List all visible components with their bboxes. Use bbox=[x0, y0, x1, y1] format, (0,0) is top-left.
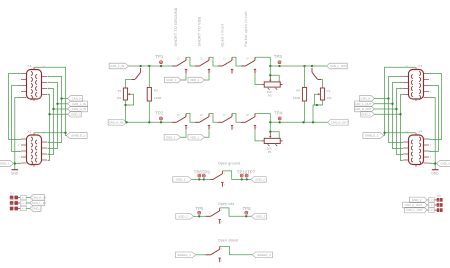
svg-text:CAN_H_OUT: CAN_H_OUT bbox=[331, 120, 349, 124]
switch S11 (open shield) bbox=[206, 246, 223, 262]
wire to ground right bbox=[434, 164, 436, 170]
wire open-ground right bbox=[222, 171, 250, 180]
junction GND right bbox=[434, 162, 436, 164]
svg-text:P3: P3 bbox=[268, 94, 272, 98]
potentiometer P3 bbox=[262, 76, 283, 97]
svg-text:TP3: TP3 bbox=[274, 54, 283, 59]
svg-text:GND_1: GND_1 bbox=[0, 162, 10, 166]
svg-text:VDD_1: VDD_1 bbox=[190, 78, 200, 82]
svg-text:G1: G1 bbox=[39, 97, 43, 99]
svg-text:P: P bbox=[256, 71, 258, 73]
net flag CAN_L_IN (left stack) bbox=[68, 101, 88, 107]
svg-text:GND_1: GND_1 bbox=[166, 78, 176, 82]
svg-text:P: P bbox=[210, 127, 212, 129]
jumper JP4 bbox=[428, 196, 442, 202]
wire X3 pin6 - X4 pin6 bbox=[389, 77, 404, 143]
svg-text:S: S bbox=[233, 116, 235, 118]
wire X1 pin8 - X2 pin8 bbox=[48, 89, 54, 155]
wire R3 top bbox=[148, 66, 150, 88]
svg-text:GND_1: GND_1 bbox=[166, 135, 176, 139]
wire X4 shell - shield bbox=[385, 132, 416, 134]
wire to flag CAN_L_OUT bbox=[375, 103, 393, 105]
svg-text:CAN_L_OUT: CAN_L_OUT bbox=[406, 208, 423, 212]
wire P2 bottom to bus2 bbox=[313, 100, 323, 122]
wire R4 bottom bbox=[304, 101, 306, 122]
svg-text:G2: G2 bbox=[39, 163, 43, 165]
wire jumper JP5 to flag bbox=[427, 204, 428, 206]
wire to flag CAN_H_OUT bbox=[375, 108, 397, 110]
wire open-vdd right bbox=[220, 208, 252, 216]
svg-text:S: S bbox=[233, 60, 235, 62]
switch S9 (open ground) bbox=[210, 171, 226, 187]
svg-text:S8: S8 bbox=[246, 115, 250, 117]
wire bus2 sw1-sw2 bbox=[186, 114, 195, 123]
wire to flag GND_2 bbox=[375, 113, 401, 115]
svg-text:P: P bbox=[221, 260, 223, 262]
resistor R4 120R bbox=[293, 88, 307, 102]
wire jumper JP3 to flag bbox=[26, 208, 29, 210]
net flag CAN_H_OUT bbox=[403, 202, 428, 208]
svg-text:Open vdd: Open vdd bbox=[218, 202, 234, 206]
wire open-shield left bbox=[196, 254, 206, 256]
svg-text:X4: X4 bbox=[418, 129, 422, 133]
switch S6 (bus2) bbox=[195, 114, 212, 130]
svg-text:120R: 120R bbox=[154, 96, 162, 100]
svg-text:VDD_1: VDD_1 bbox=[190, 135, 200, 139]
svg-text:10k: 10k bbox=[327, 96, 332, 100]
svg-text:S: S bbox=[256, 116, 258, 118]
wire to flag CAN_H right bbox=[375, 98, 389, 100]
wire jumper JP2 to flag bbox=[26, 202, 29, 204]
svg-text:S5: S5 bbox=[177, 115, 181, 117]
wire X1 pin3 - X2 pin3 bbox=[12, 86, 21, 152]
svg-text:GND_1: GND_1 bbox=[32, 207, 42, 211]
switch S10 (open vdd) bbox=[206, 208, 223, 224]
net flag GND_1 (open ground left) bbox=[173, 177, 192, 183]
net flag GND_1 (sw1 throw) bbox=[165, 77, 181, 83]
wire bus2 sw3-sw4 bbox=[232, 114, 241, 123]
connector X2 (DB9) bbox=[18, 129, 50, 166]
junctions X1 column nets bbox=[48, 97, 62, 115]
test point TP4 bbox=[274, 111, 283, 120]
net flag GND_1 (left) bbox=[0, 161, 13, 167]
wire X3 pin9 - X4 pin9 bbox=[401, 95, 404, 161]
net flag GND_1 (sw5 throw) bbox=[164, 134, 180, 140]
wire jumper JP4 to flag bbox=[427, 199, 428, 201]
svg-text:CAN_L_IN: CAN_L_IN bbox=[110, 64, 124, 68]
svg-text:CAN_H_OUT: CAN_H_OUT bbox=[354, 107, 372, 111]
svg-text:GND_1: GND_1 bbox=[71, 112, 81, 116]
svg-text:Open ground: Open ground bbox=[218, 162, 240, 166]
svg-text:7: 7 bbox=[48, 82, 50, 85]
switch S14 (bus1 to P2) bbox=[308, 68, 322, 80]
svg-text:GND_2: GND_2 bbox=[255, 177, 265, 181]
net flag CAN_H_IN (bus2 left) bbox=[108, 120, 126, 126]
test point TP5 bbox=[195, 206, 204, 214]
switch S3 (bus1) bbox=[218, 57, 235, 73]
svg-text:P: P bbox=[233, 127, 235, 129]
net flag CAN_L_OUT (bus1 right) bbox=[327, 63, 348, 69]
switch S13 (bus1 to P1) bbox=[132, 68, 144, 80]
svg-text:JP3 1: JP3 1 bbox=[21, 208, 27, 210]
wire P1 wiper loop bbox=[126, 94, 134, 105]
wire X3 pin7 - X4 pin7 bbox=[393, 83, 404, 149]
net flag CAN_H_IN (left stack) bbox=[68, 106, 88, 112]
svg-text:5: 5 bbox=[430, 97, 432, 100]
jumper JP5 bbox=[428, 201, 442, 207]
junction TP8 bbox=[245, 215, 247, 217]
connector X1 (DB9) bbox=[18, 64, 50, 101]
wire R4 top bbox=[304, 66, 306, 88]
svg-text:SHIELD_1: SHIELD_1 bbox=[72, 134, 86, 138]
svg-text:S: S bbox=[187, 60, 189, 62]
net flag GND_2 (right) bbox=[437, 161, 450, 167]
svg-text:P: P bbox=[221, 222, 223, 224]
wire P1 bottom to bus2 bbox=[125, 100, 127, 122]
wire jumper JP6 to flag bbox=[427, 209, 428, 211]
svg-text:S2: S2 bbox=[200, 59, 204, 61]
svg-text:TP10TP7: TP10TP7 bbox=[237, 169, 256, 174]
junction shield left bbox=[64, 132, 66, 134]
svg-text:8: 8 bbox=[400, 88, 402, 91]
switch S4 (bus1) bbox=[241, 57, 258, 73]
svg-text:5: 5 bbox=[18, 97, 20, 100]
wire X3 pin3 - X4 pin3 bbox=[429, 86, 438, 152]
svg-text:R3: R3 bbox=[154, 89, 158, 93]
svg-text:1: 1 bbox=[430, 73, 432, 76]
jumper JP6 bbox=[428, 206, 442, 212]
svg-text:CAN_H_IN: CAN_H_IN bbox=[32, 196, 46, 200]
potentiometer P1 bbox=[117, 88, 132, 100]
wire bus2 sw4 to right flag bbox=[255, 114, 328, 123]
wire open-shield right bbox=[220, 246, 253, 254]
svg-text:P: P bbox=[210, 71, 212, 73]
net flag GND_1 bbox=[30, 206, 42, 212]
svg-text:CAN_H_IN: CAN_H_IN bbox=[109, 120, 123, 124]
net flag GND_1 (stack) bbox=[68, 111, 82, 117]
switch S2 (bus1) bbox=[195, 57, 212, 73]
test point TP6 bbox=[198, 174, 201, 177]
svg-text:X3: X3 bbox=[418, 64, 422, 68]
svg-text:P4: P4 bbox=[268, 150, 272, 154]
wire sw2 throw to VDD_1 bbox=[204, 74, 209, 80]
wire S13 to P1 top bbox=[126, 80, 132, 89]
switch S1 (bus1) bbox=[172, 57, 189, 73]
svg-text:SHIELD_2: SHIELD_2 bbox=[257, 253, 271, 257]
net flag CAN_H (right) bbox=[360, 96, 375, 102]
net flag CAN_L_OUT (right stack) bbox=[354, 101, 374, 107]
svg-text:S: S bbox=[224, 173, 226, 175]
test point TP3 bbox=[274, 54, 283, 63]
junction GND left bbox=[14, 162, 16, 164]
junctions bus2 left bbox=[125, 121, 162, 123]
wire sw6 throw to VDD_1 bbox=[204, 130, 209, 137]
svg-text:4: 4 bbox=[18, 156, 20, 159]
junctions TP10 TP7 bbox=[241, 178, 248, 180]
svg-text:S: S bbox=[187, 116, 189, 118]
svg-text:GND_2: GND_2 bbox=[441, 162, 450, 166]
svg-text:P1: P1 bbox=[118, 89, 122, 93]
junctions X3 column nets bbox=[387, 97, 401, 115]
svg-text:1: 1 bbox=[18, 73, 20, 76]
junctions bus1 left bbox=[139, 65, 162, 67]
ground bbox=[11, 170, 19, 176]
svg-text:VDD_2: VDD_2 bbox=[256, 214, 266, 218]
svg-text:CAN_H_IN: CAN_H_IN bbox=[72, 107, 86, 111]
svg-text:P2: P2 bbox=[327, 89, 331, 93]
wire sw1 throw to GND_1 bbox=[181, 74, 186, 80]
wire X1 pin5 - X2 pin5 - GND bbox=[15, 98, 21, 164]
net flag SHIELD_1 (left) bbox=[66, 133, 87, 139]
wire P2 wiper loop bbox=[314, 94, 322, 105]
wire sw8 throw to P4 left bbox=[255, 130, 262, 141]
wire to flag CAN_L_IN bbox=[58, 103, 68, 105]
wire X1 pin1 - X2 pin1 bbox=[9, 74, 22, 140]
svg-text:10k: 10k bbox=[117, 96, 122, 100]
svg-text:CAN_L_OUT: CAN_L_OUT bbox=[354, 102, 371, 106]
svg-text:3: 3 bbox=[18, 85, 20, 88]
net flag SHIELD_1 (open shield left) bbox=[176, 252, 196, 258]
svg-text:JP2 1: JP2 1 bbox=[21, 203, 27, 205]
resistor R3 120R bbox=[147, 88, 162, 102]
svg-text:P: P bbox=[233, 71, 235, 73]
svg-text:7: 7 bbox=[400, 82, 402, 85]
jumper JP1 bbox=[10, 194, 27, 200]
svg-text:1 JP6: 1 JP6 bbox=[429, 210, 435, 212]
wire open-ground left bbox=[192, 178, 211, 180]
svg-text:TP2: TP2 bbox=[155, 111, 164, 116]
svg-text:SHORT TO VDD: SHORT TO VDD bbox=[198, 16, 202, 46]
wire X1 pin7 - X2 pin7 bbox=[48, 83, 58, 149]
svg-text:S7: S7 bbox=[223, 115, 227, 117]
svg-text:1 JP5: 1 JP5 bbox=[429, 205, 435, 207]
wire to flag GND_1 bbox=[50, 113, 68, 115]
svg-text:JP4: JP4 bbox=[437, 196, 442, 198]
wire S14 to P2 top bbox=[321, 80, 323, 89]
svg-text:JP1 1: JP1 1 bbox=[21, 197, 27, 199]
net flag CAN_L_IN bbox=[30, 200, 46, 206]
svg-text:GND_2: GND_2 bbox=[412, 198, 422, 202]
net flag SHIELD_2 (right) bbox=[363, 133, 384, 139]
svg-text:JP2: JP2 bbox=[10, 199, 15, 201]
test point TP9 bbox=[202, 174, 205, 177]
svg-text:P: P bbox=[224, 185, 226, 187]
svg-text:GND_2: GND_2 bbox=[361, 112, 371, 116]
svg-text:S: S bbox=[142, 71, 144, 73]
svg-text:GND_1: GND_1 bbox=[176, 177, 186, 181]
wire X3 pin5 - X4 pin5 - GND bbox=[429, 98, 435, 164]
svg-text:VDD_1: VDD_1 bbox=[178, 214, 188, 218]
net flag VDD_1 (open vdd left) bbox=[176, 214, 194, 220]
wire to flag CAN_H_IN bbox=[54, 108, 68, 110]
net flag VDD_2 (open vdd right) bbox=[251, 214, 266, 220]
switch S7 (bus2) bbox=[218, 114, 235, 130]
wire bus1 sw3-sw4 bbox=[232, 57, 241, 66]
wire open-vdd left bbox=[194, 215, 206, 217]
net flag GND_2 bbox=[409, 197, 427, 203]
net flag VDD_1 (sw2 throw) bbox=[188, 77, 204, 83]
svg-text:P: P bbox=[187, 71, 189, 73]
test point TP8 bbox=[243, 206, 252, 214]
connector X4 (DB9) bbox=[400, 129, 432, 166]
net flag VDD_1 (sw6 throw) bbox=[188, 134, 204, 140]
svg-text:S6: S6 bbox=[200, 115, 204, 117]
wire to flag CAN_L bbox=[62, 98, 68, 100]
wire bus1 sw1-sw2 bbox=[186, 57, 195, 66]
junction P4 wiper bbox=[269, 131, 271, 133]
test point TP10 bbox=[240, 174, 243, 177]
wire sw4 throw to P3 left bbox=[255, 74, 262, 85]
wire bus1 to P3 right bbox=[270, 66, 279, 82]
net flag CAN_H bbox=[68, 96, 83, 102]
net flag GND_2 (open ground right) bbox=[251, 177, 266, 183]
wire jumper JP1 to flag bbox=[26, 197, 29, 199]
svg-text:S: S bbox=[308, 71, 310, 73]
svg-text:JP1: JP1 bbox=[10, 194, 15, 196]
svg-text:2: 2 bbox=[430, 144, 432, 147]
svg-text:S: S bbox=[256, 60, 258, 62]
svg-text:6: 6 bbox=[400, 76, 402, 79]
junctions TP6 TP9 bbox=[198, 178, 205, 180]
svg-text:R4: R4 bbox=[296, 89, 300, 93]
junction TP5 bbox=[198, 215, 200, 217]
svg-text:S: S bbox=[221, 249, 223, 251]
svg-text:TP8: TP8 bbox=[243, 206, 252, 211]
svg-text:G1: G1 bbox=[42, 65, 46, 69]
svg-text:P: P bbox=[187, 127, 189, 129]
connector X3 (DB9) bbox=[400, 64, 432, 101]
net flag CAN_H_OUT (bus2 right) bbox=[328, 120, 349, 126]
svg-text:GND: GND bbox=[11, 171, 19, 175]
svg-text:S1: S1 bbox=[177, 59, 181, 61]
jumper JP2 bbox=[10, 199, 27, 205]
wire bus1 sw2-sw3 bbox=[209, 57, 218, 66]
wire bus2 sw2-sw3 bbox=[209, 114, 218, 123]
wire X1 pin9 - X2 pin9 bbox=[48, 95, 50, 161]
svg-text:SHIELD_1: SHIELD_1 bbox=[177, 253, 191, 257]
wire X3 shell - shield bbox=[384, 67, 416, 135]
svg-text:Open shield: Open shield bbox=[218, 238, 238, 242]
wire bus2 left segment bbox=[127, 121, 173, 123]
test point TP1 bbox=[155, 54, 164, 63]
wire X1 shell - shield bbox=[34, 67, 66, 135]
svg-text:120R: 120R bbox=[293, 96, 301, 100]
svg-text:S3: S3 bbox=[223, 59, 227, 61]
svg-text:2: 2 bbox=[430, 79, 432, 82]
svg-text:TP1: TP1 bbox=[155, 54, 164, 59]
svg-text:X1: X1 bbox=[28, 64, 32, 68]
svg-text:CAN_H: CAN_H bbox=[72, 97, 82, 101]
svg-text:CAN_H_OUT: CAN_H_OUT bbox=[405, 203, 423, 207]
net flag CAN_H_IN bbox=[30, 195, 46, 201]
svg-text:2: 2 bbox=[18, 144, 20, 147]
svg-text:4: 4 bbox=[430, 156, 432, 159]
junctions bus1 right bbox=[269, 65, 313, 67]
junction shield right bbox=[383, 132, 385, 134]
svg-text:S: S bbox=[210, 60, 212, 62]
wire sw5 throw to GND_1 bbox=[181, 130, 187, 137]
svg-text:TP5: TP5 bbox=[195, 206, 204, 211]
wire X3 pin8 - X4 pin8 bbox=[397, 89, 404, 155]
svg-text:S4: S4 bbox=[246, 59, 250, 61]
jumper JP3 bbox=[10, 205, 27, 211]
svg-text:4: 4 bbox=[430, 91, 432, 94]
svg-text:P: P bbox=[256, 127, 258, 129]
test point TP2 bbox=[155, 111, 164, 120]
junctions bus2 right bbox=[269, 121, 314, 123]
svg-text:6: 6 bbox=[48, 76, 50, 79]
svg-text:Open circuit: Open circuit bbox=[221, 24, 225, 47]
svg-text:Partial open circuit: Partial open circuit bbox=[244, 11, 248, 46]
potentiometer P4 bbox=[262, 133, 283, 154]
net flag CAN_H_OUT (right stack) bbox=[354, 106, 374, 112]
svg-text:TP6TP9: TP6TP9 bbox=[194, 169, 211, 174]
svg-text:G3: G3 bbox=[405, 65, 409, 69]
wire R3 bottom bbox=[148, 101, 150, 122]
svg-text:G4: G4 bbox=[405, 130, 409, 134]
net flag SHIELD_2 (open shield right) bbox=[252, 252, 272, 258]
net flag CAN_L_OUT bbox=[405, 207, 428, 213]
svg-text:CAN_L_IN: CAN_L_IN bbox=[32, 201, 46, 205]
svg-text:SHIELD_2: SHIELD_2 bbox=[365, 134, 379, 138]
switch S5 (bus2) bbox=[172, 114, 189, 130]
wire bus2 to P4 right bbox=[270, 122, 279, 138]
wire to ground bbox=[14, 164, 16, 170]
svg-text:4: 4 bbox=[18, 91, 20, 94]
net flag CAN_L_IN (bus1 left) bbox=[109, 63, 128, 69]
svg-text:X2: X2 bbox=[28, 129, 32, 133]
switch S8 (bus2) bbox=[241, 114, 258, 130]
junction P1 wiper bbox=[124, 104, 126, 106]
ground right bbox=[431, 170, 439, 176]
svg-text:GND: GND bbox=[431, 171, 439, 175]
svg-text:S: S bbox=[221, 210, 223, 212]
svg-text:3: 3 bbox=[430, 85, 432, 88]
junction P3 wiper bbox=[269, 74, 271, 76]
wire X2 shell - shield bbox=[34, 132, 66, 134]
wire X3 pin1 - X4 pin1 bbox=[429, 74, 442, 140]
svg-text:TP4: TP4 bbox=[274, 111, 283, 116]
wire bus1 sw4 to right flag bbox=[255, 57, 327, 66]
svg-text:2: 2 bbox=[18, 79, 20, 82]
svg-text:JP3: JP3 bbox=[10, 205, 15, 207]
svg-text:1 JP4: 1 JP4 bbox=[429, 200, 435, 202]
wire X1 pin6 - X2 pin6 bbox=[48, 77, 62, 143]
svg-text:8: 8 bbox=[48, 88, 50, 91]
svg-text:G2: G2 bbox=[42, 130, 46, 134]
wire bus1 left segment bbox=[129, 65, 173, 67]
svg-text:S: S bbox=[210, 116, 212, 118]
net flag GND_2 (stack) bbox=[361, 111, 375, 117]
potentiometer P2 bbox=[317, 88, 332, 100]
svg-text:SHORT TO GROUND: SHORT TO GROUND bbox=[174, 7, 178, 46]
test point TP7 bbox=[245, 174, 248, 177]
svg-text:CAN_H: CAN_H bbox=[361, 97, 371, 101]
svg-text:CAN_L_OUT: CAN_L_OUT bbox=[330, 64, 347, 68]
junction P2 wiper bbox=[316, 104, 318, 106]
svg-text:CAN_L_IN: CAN_L_IN bbox=[72, 102, 86, 106]
